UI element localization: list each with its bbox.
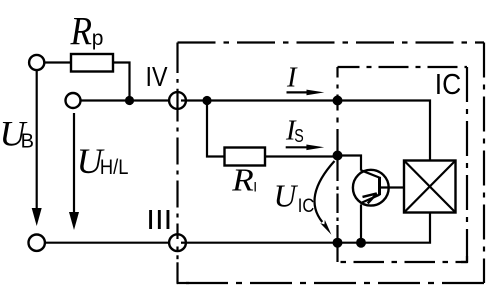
svg-text:R: R xyxy=(231,163,254,198)
wire: terminal2 to node IV main rail xyxy=(81,99,170,101)
svg-text:p: p xyxy=(92,27,104,50)
node IV boundary circle xyxy=(169,92,186,109)
wire: I-junction to crossed box top xyxy=(338,101,431,161)
wire: IS-junction to transistor top xyxy=(338,156,362,171)
svg-text:IC: IC xyxy=(298,195,315,217)
resistor Rp body xyxy=(71,54,113,72)
UIC curved arrow xyxy=(314,161,334,235)
wire: node IV to I-junction xyxy=(186,99,338,101)
crossed box output element xyxy=(404,161,456,213)
junction dot F (emitter to rail) xyxy=(356,238,366,248)
junction dot C (IC pin top) xyxy=(333,96,343,106)
resistor RI body xyxy=(225,148,266,166)
wire: RI to IS-junction xyxy=(265,155,338,157)
current arrow I xyxy=(287,90,325,96)
svg-text:S: S xyxy=(294,126,304,146)
svg-text:U: U xyxy=(274,179,299,214)
terminal T3 bottom-left xyxy=(29,235,45,251)
wire: bottom rail left (terminal3 to node III) xyxy=(45,242,169,244)
outer dash-dot boundary box xyxy=(177,43,485,284)
svg-text:R: R xyxy=(70,8,92,53)
svg-text:I: I xyxy=(253,178,257,194)
wire: Rp to junction xyxy=(113,63,130,101)
svg-text:IV: IV xyxy=(146,61,168,92)
svg-text:I: I xyxy=(286,62,298,93)
node III boundary circle xyxy=(169,234,186,251)
voltage arrow UH/L xyxy=(69,113,79,230)
junction dot E (IC pin bottom) xyxy=(333,238,343,248)
wire: top-left terminal to Rp xyxy=(45,61,72,63)
svg-text:III: III xyxy=(146,204,172,235)
junction dot D (IC pin mid) xyxy=(333,151,343,161)
svg-text:IC: IC xyxy=(435,69,462,101)
voltage arrow UB xyxy=(32,71,42,227)
wire: branch down to RI xyxy=(207,101,225,157)
wire: bottom rail right (node III to crossed box) xyxy=(186,213,430,243)
svg-text:H/L: H/L xyxy=(100,156,128,179)
junction dot B (RI branch) xyxy=(202,96,211,105)
current arrow IS xyxy=(286,145,325,151)
inner dash-dot IC box xyxy=(338,67,468,262)
wire: transistor emitter down to bottom rail xyxy=(360,205,362,243)
terminal T1 top-left xyxy=(29,55,44,70)
junction dot A (Rp join) xyxy=(125,96,134,105)
svg-text:B: B xyxy=(21,131,34,153)
terminal T2 xyxy=(66,93,81,108)
transistor Q1 xyxy=(353,170,404,206)
